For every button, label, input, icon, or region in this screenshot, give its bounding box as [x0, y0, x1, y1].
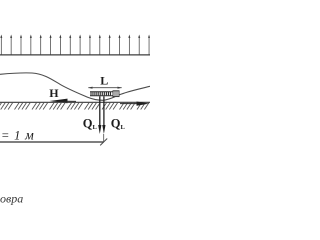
dimension tick (slash)	[100, 139, 107, 146]
force arrows Q (two, pointing down)	[98, 96, 105, 134]
bottom dimension line	[0, 141, 104, 143]
right direction arrow	[120, 102, 149, 106]
left direction arrow	[50, 99, 68, 104]
snow surface curve	[0, 73, 150, 100]
svg-text:= 1 м: = 1 м	[1, 127, 35, 142]
top boundary line	[0, 54, 150, 56]
ground hatching	[0, 103, 149, 110]
shield slab (hatched band)	[90, 92, 113, 96]
svg-text:H: H	[49, 86, 59, 100]
svg-text:овра: овра	[0, 191, 23, 205]
dimension line L (over slab)	[88, 87, 121, 89]
ground line	[0, 101, 150, 103]
extension line from Q arrows to bottom dimension	[103, 134, 105, 142]
slab right end block	[113, 91, 119, 97]
distributed load arrows (top row, pointing up)	[0, 35, 150, 56]
svg-text:L: L	[100, 73, 108, 87]
